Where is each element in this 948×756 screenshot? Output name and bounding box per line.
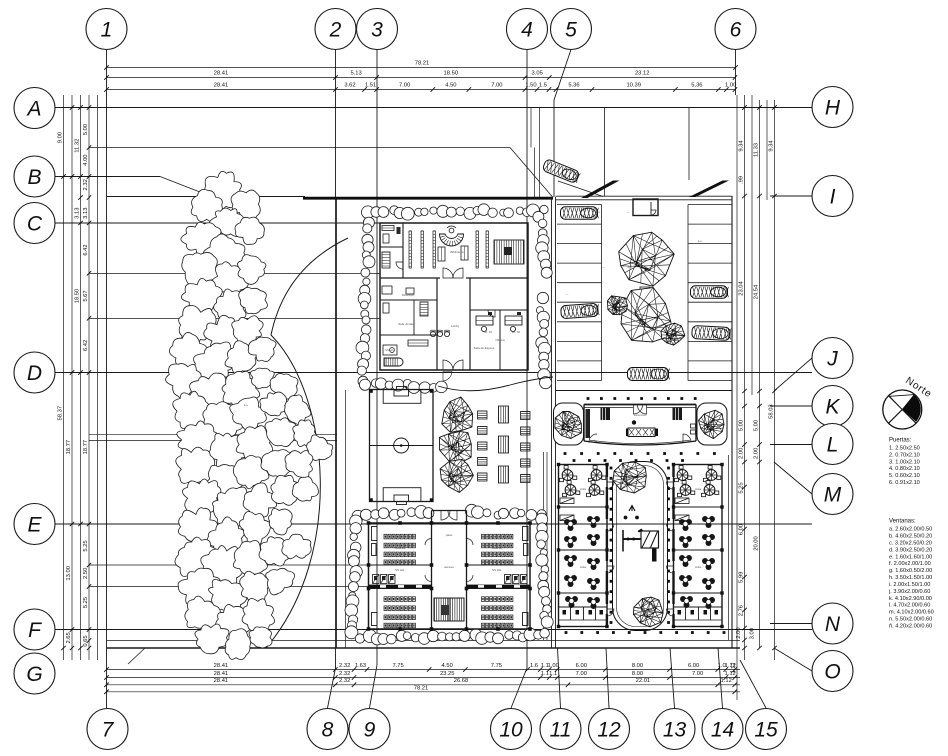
lower-left furniture [382, 286, 392, 294]
kinder rooms right column [674, 465, 723, 627]
grid line K leader [770, 405, 812, 407]
svg-text:C: C [27, 212, 43, 235]
grid line O leader [774, 648, 812, 671]
tree blob 19 [225, 341, 257, 374]
stairs top-right [494, 240, 524, 264]
svg-text:B: B [27, 166, 41, 189]
tree blob 38 [206, 465, 243, 503]
grid bubble I [812, 176, 853, 217]
grid line 4 vertical [526, 50, 528, 669]
bottom dim row 1 [107, 669, 741, 671]
grid bubble K [812, 386, 853, 427]
svg-text:n. 5.50x2.00/0.60: n. 5.50x2.00/0.60 [889, 617, 932, 623]
building D closet [586, 409, 591, 438]
svg-text:D: D [27, 362, 42, 385]
svg-text:Ventanas:: Ventanas: [889, 519, 916, 525]
tree blob 44 [243, 483, 276, 517]
grid line N leader [770, 623, 812, 625]
svg-text:2.32: 2.32 [83, 179, 89, 190]
tree blob 14 [179, 305, 217, 346]
svg-text:23.04: 23.04 [739, 280, 745, 295]
svg-text:7.75: 7.75 [491, 663, 502, 669]
picnic tables col3 [521, 412, 531, 420]
svg-text:23.25: 23.25 [440, 671, 455, 677]
svg-text:58.37: 58.37 [58, 406, 64, 421]
grid bubble 1 [86, 9, 127, 50]
tree blob 65 [249, 627, 272, 648]
parked car 2 [561, 303, 600, 319]
courtyard tree bottom [633, 597, 663, 627]
tree blob 23 [222, 371, 260, 407]
svg-text:1.51: 1.51 [365, 83, 376, 89]
tree blob 16 [232, 316, 263, 346]
grid line 3 vertical [376, 50, 378, 666]
svg-text:Of. 01: Of. 01 [484, 330, 493, 334]
svg-text:---: --- [566, 292, 569, 296]
tree blob 27 [203, 402, 243, 437]
central path inner [617, 466, 664, 627]
svg-text:5.67: 5.67 [83, 290, 89, 301]
tree blob 28 [230, 397, 267, 432]
svg-text:8.00: 8.00 [632, 671, 643, 677]
grid line F horizontal [55, 629, 812, 631]
svg-text:28.41: 28.41 [214, 678, 229, 684]
svg-text:78.21: 78.21 [415, 61, 430, 67]
svg-text:a.v.: a.v. [698, 239, 703, 243]
vertical path lines near grid 4-5 [530, 108, 532, 148]
grid bubble N [812, 603, 853, 644]
grid line D horizontal [55, 372, 812, 374]
grid bubble 6 [715, 9, 756, 50]
top dim row 1 [107, 67, 736, 69]
hall entry doors [441, 511, 450, 520]
classroom hall walls [431, 511, 433, 630]
parking entry columns [604, 108, 606, 197]
svg-text:A: A [25, 97, 41, 120]
tree blob 2 [231, 190, 260, 220]
picnic tables col2 [499, 406, 509, 423]
svg-text:M: M [824, 483, 842, 506]
upper building stone border right top [533, 211, 544, 222]
parking stall lines right column [688, 204, 732, 206]
svg-text:2.32: 2.32 [339, 678, 350, 684]
north arrow compass [883, 390, 922, 429]
central walk verticals [551, 197, 553, 648]
bottom dim row 4 [107, 691, 741, 693]
corridor walls [369, 564, 432, 566]
svg-text:4. 0.80x2.10: 4. 0.80x2.10 [889, 466, 920, 472]
grid bubble 2 [315, 9, 356, 50]
parking geodesic tree 2 [621, 288, 673, 342]
hall door arcs [425, 539, 432, 546]
svg-text:L: L [827, 433, 839, 456]
classroom desk rows top-left [384, 534, 387, 539]
grid bubble 8 [307, 709, 348, 750]
svg-text:5.25: 5.25 [83, 597, 89, 608]
tree blob 46 [292, 477, 318, 501]
svg-text:5.36: 5.36 [568, 83, 579, 89]
svg-text:1.00: 1.00 [725, 83, 736, 89]
grid bubble B [14, 156, 55, 197]
svg-text:18.77: 18.77 [66, 440, 72, 455]
svg-text:15: 15 [754, 718, 778, 741]
svg-text:Aula 02: Aula 02 [492, 546, 503, 550]
playground slide box [641, 531, 659, 548]
svg-text:9.34: 9.34 [769, 140, 775, 152]
tree blob 30 [285, 395, 311, 425]
svg-text:4.50: 4.50 [445, 83, 456, 89]
tree blob 57 [208, 580, 247, 612]
svg-text:28.41: 28.41 [214, 663, 229, 669]
svg-text:18.50: 18.50 [444, 71, 459, 77]
svg-text:78.21: 78.21 [414, 685, 429, 691]
building D door top [634, 405, 643, 414]
bottom site line [107, 640, 741, 642]
svg-text:H: H [825, 96, 841, 119]
parking island edges [601, 205, 603, 381]
tree blob 51 [175, 537, 217, 576]
svg-text:5. 0.60x2.10: 5. 0.60x2.10 [889, 473, 920, 479]
svg-text:10: 10 [499, 718, 523, 741]
svg-text:2.32: 2.32 [339, 663, 350, 669]
grid line 5 vertical + leader [554, 50, 571, 101]
svg-text:Direccion: Direccion [402, 293, 415, 297]
tree blob 31 [177, 421, 218, 459]
svg-text:e. 1.60x1.60/1.00: e. 1.60x1.60/1.00 [889, 554, 932, 560]
svg-text:1.63: 1.63 [355, 663, 366, 669]
geodesic tree column 2 [440, 432, 472, 464]
tree blob 15 [204, 315, 240, 352]
svg-text:13: 13 [663, 718, 687, 741]
tree blob 1 [205, 171, 242, 209]
svg-text:E: E [27, 513, 42, 536]
bottom dim row 2 [107, 677, 741, 679]
svg-text:1.12: 1.12 [721, 678, 732, 684]
svg-text:a.v.: a.v. [543, 249, 548, 253]
tree blob 60 [185, 596, 223, 630]
svg-text:1.6: 1.6 [530, 663, 538, 669]
tree blob 40 [261, 450, 294, 477]
playground swing [622, 530, 624, 552]
tick line 273 [89, 272, 380, 274]
tree blob 22 [188, 373, 232, 411]
svg-text:5.25: 5.25 [83, 540, 89, 551]
grid bubble M [812, 474, 853, 515]
left chain lines [63, 95, 65, 660]
svg-text:24.54: 24.54 [754, 284, 760, 299]
grid bubble 10 [491, 709, 532, 750]
svg-text:7: 7 [102, 718, 115, 741]
upper building stone border top [362, 206, 375, 219]
svg-text:5: 5 [565, 18, 577, 41]
grid line L leader [770, 444, 812, 446]
svg-text:28.41: 28.41 [214, 83, 229, 89]
svg-text:6: 6 [730, 18, 742, 41]
upper building stone border left [363, 217, 374, 228]
parking geodesic tree small [661, 323, 685, 345]
classroom stone border top left [352, 510, 364, 522]
svg-text:F: F [28, 619, 42, 642]
corridor dark band left [369, 585, 432, 589]
grid bubble 5 [551, 9, 592, 50]
reception fan desk [440, 234, 464, 246]
field walk lines [89, 434, 337, 436]
svg-text:ñ. 4.20x2.00/0.60: ñ. 4.20x2.00/0.60 [889, 624, 932, 630]
top dim row 2 [107, 77, 736, 79]
bottom boundary heavy [107, 647, 741, 649]
tree blob 45 [271, 475, 299, 505]
grid bubble E [14, 504, 55, 545]
tree blob 36 [307, 435, 333, 461]
svg-text:18.77: 18.77 [83, 440, 89, 455]
parked car 3 [691, 286, 729, 299]
right boundary wall [731, 196, 733, 648]
tree blob 61 [214, 605, 250, 645]
svg-text:9.00: 9.00 [58, 132, 64, 143]
grid line 15 leader [740, 660, 766, 708]
hall stairs [434, 598, 464, 621]
svg-text:0.65: 0.65 [83, 635, 89, 646]
tree blob 34 [265, 418, 296, 447]
building D bottom doors [589, 434, 597, 442]
svg-text:5.13: 5.13 [350, 71, 361, 77]
svg-text:5.25: 5.25 [739, 482, 745, 493]
chairs row [430, 331, 435, 336]
grid bubble 9 [349, 709, 390, 750]
grid bubble 15 [746, 709, 787, 750]
svg-text:Puertas:: Puertas: [889, 437, 912, 443]
svg-text:a. 2.60x2.00/0.50: a. 2.60x2.00/0.50 [889, 527, 932, 533]
svg-text:1.1: 1.1 [549, 671, 557, 677]
bottom goal boxes [383, 488, 421, 502]
grid bubble 4 [507, 9, 548, 50]
upper building stone border right bottom [537, 292, 548, 303]
tree blob 29 [260, 392, 287, 416]
svg-text:3.13: 3.13 [75, 208, 81, 219]
svg-text:2. 0.70x2.10: 2. 0.70x2.10 [889, 452, 920, 458]
tree blob 53 [233, 541, 267, 575]
building D tree box right [697, 403, 727, 445]
building D tree box left [554, 403, 584, 445]
right chain lines [736, 95, 738, 700]
svg-text:4.00: 4.00 [83, 154, 89, 165]
tree blob 49 [239, 511, 271, 547]
tree blob 50 [269, 509, 293, 535]
svg-text:2.50: 2.50 [83, 568, 89, 579]
parking bottom line [556, 390, 733, 392]
tree blob 17 [169, 332, 207, 373]
bottom dim row 3 [107, 684, 741, 686]
grid bubble O [812, 651, 853, 692]
svg-text:G: G [26, 663, 42, 686]
svg-text:m. 4.10x2.00/0.60: m. 4.10x2.00/0.60 [889, 610, 934, 616]
svg-text:2.32: 2.32 [339, 671, 350, 677]
svg-text:1.12: 1.12 [731, 662, 737, 673]
grid line 8 leader [328, 668, 336, 708]
tree blob 20 [248, 337, 276, 361]
tree blob 25 [270, 373, 298, 399]
svg-text:Sala de Espera: Sala de Espera [474, 346, 495, 350]
svg-text:Of. 02: Of. 02 [512, 330, 521, 334]
grid line 11 vertical [558, 648, 561, 708]
tree blob 18 [192, 342, 235, 381]
tree blob 62 [242, 599, 274, 632]
classroom stone border right [536, 513, 548, 525]
tree blob 64 [225, 629, 251, 660]
building D walls [584, 404, 696, 406]
svg-text:1.5: 1.5 [539, 83, 547, 89]
svg-text:7.75: 7.75 [392, 663, 403, 669]
svg-text:b. 4.60x2.50/0.20: b. 4.60x2.50/0.20 [889, 534, 932, 540]
site boundary line thin part [107, 196, 306, 198]
grid line C horizontal [55, 222, 380, 224]
svg-text:K: K [825, 395, 840, 418]
garden arc path [266, 238, 348, 648]
tree blob 3 [191, 189, 222, 222]
tree blob 48 [207, 517, 245, 561]
field center line [370, 445, 434, 447]
G leader [128, 648, 145, 664]
grid bubble D [14, 352, 55, 393]
svg-text:5.36: 5.36 [691, 83, 702, 89]
tree blob 33 [236, 426, 272, 463]
classroom stone border left [350, 515, 362, 527]
classroom outer walls [369, 523, 531, 629]
tree blob 37 [176, 447, 215, 484]
grid line B horizontal [55, 176, 160, 178]
geodesic tree column 1 [442, 397, 473, 432]
center circle [394, 438, 409, 453]
tree blob 4 [209, 208, 243, 236]
grid bubble 3 [357, 9, 398, 50]
svg-text:11: 11 [550, 718, 572, 741]
tree blob 39 [233, 455, 269, 488]
geodesic tree column 3 [440, 459, 473, 492]
washroom fixtures corridor [373, 575, 380, 584]
tree blob 32 [209, 433, 249, 473]
tree blob 21 [166, 364, 203, 400]
svg-text:14: 14 [711, 718, 734, 741]
svg-text:13.00: 13.00 [66, 566, 72, 581]
entrance wedge right [689, 181, 729, 198]
svg-text:58.03: 58.03 [769, 404, 775, 419]
tree blob 43 [213, 487, 254, 527]
tree blob 26 [173, 391, 213, 430]
tree blob 54 [259, 537, 289, 566]
tree blob 56 [178, 568, 222, 606]
site boundary heavy line [303, 197, 553, 200]
picnic tables col1 [478, 411, 488, 419]
svg-text:---: --- [602, 265, 605, 269]
svg-text:1.50: 1.50 [525, 83, 536, 89]
svg-text:.99: .99 [739, 176, 745, 184]
grid bubble 11 [540, 709, 581, 750]
svg-text:f. 2.00x2.00/1.00: f. 2.00x2.00/1.00 [889, 561, 931, 567]
svg-text:5.00: 5.00 [83, 124, 89, 135]
wall junction columns [367, 521, 371, 525]
svg-text:2.76: 2.76 [739, 605, 745, 616]
tree blob 6 [181, 222, 221, 257]
svg-text:Musica: Musica [385, 348, 395, 352]
svg-text:Sala Juntas: Sala Juntas [398, 322, 414, 326]
svg-text:j. 3.90x2.00/0.60: j. 3.90x2.00/0.60 [888, 589, 930, 595]
tree blob 11 [181, 278, 222, 312]
entrance diagonal [510, 148, 553, 198]
svg-text:Aula: Aula [580, 565, 586, 569]
center double door to library [443, 268, 453, 278]
svg-text:N: N [825, 613, 841, 636]
svg-text:Aula 04: Aula 04 [492, 608, 503, 612]
tree blob 35 [293, 420, 317, 447]
grid bubble H [812, 87, 853, 128]
svg-text:22.01: 22.01 [636, 678, 651, 684]
parking top boundary [556, 195, 733, 197]
svg-text:8.00: 8.00 [632, 663, 643, 669]
study tables [438, 247, 445, 261]
svg-text:5.00: 5.00 [739, 420, 745, 431]
svg-text:4: 4 [521, 18, 533, 41]
grid line 12 vertical [606, 648, 609, 708]
library shelves [409, 231, 411, 268]
svg-text:6. 0.91x2.10: 6. 0.91x2.10 [889, 480, 920, 486]
svg-text:3: 3 [371, 18, 383, 41]
field corner marks [370, 390, 373, 393]
svg-text:5.99: 5.99 [739, 572, 745, 583]
grid bubble A [14, 88, 55, 129]
paver dots above building D [587, 397, 590, 400]
tree blob 58 [240, 571, 269, 604]
svg-text:Oficina: Oficina [495, 338, 505, 342]
classroom stone border bottom [355, 634, 364, 643]
svg-text:Aula 01: Aula 01 [395, 546, 406, 550]
svg-text:7.00: 7.00 [692, 671, 703, 677]
svg-text:1. 2.50x2.50: 1. 2.50x2.50 [889, 445, 920, 451]
svg-text:2.00: 2.00 [754, 448, 760, 459]
grid line 2 vertical [335, 50, 337, 198]
svg-text:7.00: 7.00 [491, 83, 502, 89]
grid line 14 vertical [718, 648, 723, 708]
svg-text:Aula 03: Aula 03 [395, 608, 406, 612]
grid bubble F [14, 609, 55, 650]
svg-text:i. 2.00x1.50/1.00: i. 2.00x1.50/1.00 [889, 582, 930, 588]
tree blob 9 [211, 262, 249, 296]
svg-text:J: J [826, 347, 838, 370]
walk edge line right of grid2 [345, 390, 347, 648]
svg-text:3.00: 3.00 [750, 628, 756, 639]
svg-text:c. 3.20x2.50/0.20: c. 3.20x2.50/0.20 [889, 540, 932, 546]
entrance ramp diagonal [558, 181, 603, 197]
tick line below A [89, 147, 510, 149]
building D conference table [628, 428, 655, 437]
svg-text:k. 4.10x2.90/0.00: k. 4.10x2.90/0.00 [889, 596, 932, 602]
parking geodesic tree 1 [619, 232, 675, 286]
tree blob 12 [214, 289, 246, 326]
tree blob 13 [239, 287, 268, 313]
svg-text:O: O [824, 660, 840, 683]
grid line M leader [774, 462, 812, 494]
svg-text:12: 12 [597, 718, 621, 741]
svg-text:2.00: 2.00 [736, 627, 742, 638]
svg-text:2.00: 2.00 [739, 448, 745, 459]
grid bubble G [14, 653, 55, 694]
parking small shrub [608, 296, 628, 315]
tree blob 10 [238, 255, 266, 285]
svg-text:Aula: Aula [695, 565, 701, 569]
grid line I horizontal leader [770, 195, 812, 197]
grid bubble L [812, 424, 853, 465]
tree blob 59 [266, 568, 295, 595]
grid line 9 leader [370, 665, 378, 708]
